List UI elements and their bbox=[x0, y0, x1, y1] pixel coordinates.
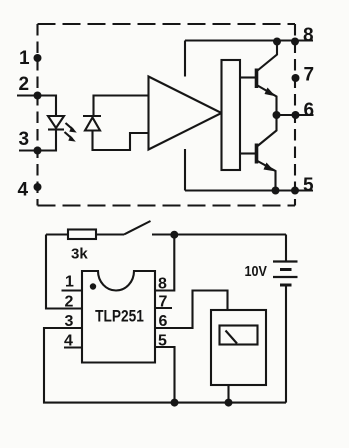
svg-text:2: 2 bbox=[19, 74, 30, 95]
pin 5 border dot bbox=[291, 187, 299, 195]
pin 7 dot bbox=[292, 74, 300, 82]
pin 2 dot bbox=[34, 92, 42, 100]
IC pin 4 stub bbox=[64, 346, 82, 348]
dashed package outline right edge bbox=[294, 24, 296, 206]
battery B1 10V bbox=[273, 262, 298, 286]
wire LED cathode to pin3 bbox=[38, 130, 56, 151]
IC pin 5 wire to ground rail bbox=[155, 347, 175, 403]
Q1 collector junction dot bbox=[273, 38, 281, 46]
meter window bbox=[220, 326, 258, 345]
transistor Q2 base wire bbox=[240, 152, 256, 154]
svg-text:3: 3 bbox=[65, 313, 74, 330]
IC TLP251 body bbox=[82, 271, 155, 363]
dashed package outline top edge bbox=[38, 23, 296, 25]
svg-text:4: 4 bbox=[64, 333, 73, 350]
svg-text:3k: 3k bbox=[71, 246, 88, 263]
inner box left edge bbox=[184, 41, 186, 191]
ground rail junction dot meter bbox=[225, 399, 233, 407]
left rail to pin 2 bbox=[46, 235, 82, 309]
IC pin 8 wire to supply bbox=[155, 235, 174, 291]
dashed package outline bottom edge bbox=[38, 204, 296, 206]
transistor Q1 collector bbox=[258, 42, 278, 71]
ground rail junction dot pin5 bbox=[171, 399, 179, 407]
battery bottom wire bbox=[285, 285, 287, 403]
svg-text:6: 6 bbox=[159, 313, 168, 330]
supply junction dot bbox=[170, 231, 178, 239]
light emission arrow 1 bbox=[66, 123, 77, 133]
svg-text:8: 8 bbox=[158, 276, 167, 293]
wire photodiode anode to amp input bbox=[93, 131, 149, 151]
pin 3 stub wire bbox=[19, 149, 38, 151]
wire pin2 to LED anode bbox=[38, 96, 56, 117]
top supply wire bbox=[46, 233, 68, 235]
IC pin 7 stub bbox=[155, 307, 172, 309]
transistor Q1 emitter bbox=[258, 86, 277, 116]
transistor Q1 base bar bbox=[255, 69, 259, 89]
LED D (emitter diode) bbox=[48, 116, 64, 128]
IC pin1 index dot bbox=[90, 283, 96, 289]
output driver block bbox=[222, 60, 241, 170]
svg-text:7: 7 bbox=[304, 65, 315, 86]
meter bottom wire bbox=[227, 385, 229, 403]
pin 3 dot bbox=[34, 147, 42, 155]
transistor Q2 collector bbox=[258, 115, 277, 146]
pin 2 stub wire bbox=[17, 94, 38, 96]
IC pin 1 stub bbox=[62, 289, 83, 291]
resistor 3k body bbox=[68, 230, 96, 240]
transistor Q2 base bar bbox=[255, 144, 259, 164]
svg-text:1: 1 bbox=[65, 274, 74, 291]
transistor Q2 emitter bbox=[258, 161, 276, 191]
wire resistor to switch bbox=[96, 233, 124, 235]
pin 6 border dot bbox=[292, 111, 300, 119]
switch S blade bbox=[124, 221, 151, 235]
meter body bbox=[211, 310, 266, 385]
light emission arrow 2 bbox=[65, 132, 76, 142]
svg-text:5: 5 bbox=[158, 333, 167, 350]
svg-text:6: 6 bbox=[304, 100, 315, 121]
pin 8 border dot bbox=[291, 38, 299, 46]
Q2 emitter junction dot bbox=[272, 187, 280, 195]
switch fixed contact wire bbox=[152, 233, 286, 235]
wire photodiode cathode to amp input bbox=[94, 96, 149, 117]
meter needle bbox=[226, 331, 238, 344]
svg-text:7: 7 bbox=[159, 294, 168, 311]
pin 4 dot bbox=[34, 183, 42, 191]
svg-text:10V: 10V bbox=[245, 262, 268, 279]
dashed package outline left edge bbox=[36, 24, 38, 206]
svg-text:TLP251: TLP251 bbox=[95, 307, 144, 325]
svg-text:1: 1 bbox=[19, 48, 30, 69]
pin 6 stub wire bbox=[277, 114, 314, 116]
inner box top edge / pin 8 rail bbox=[185, 39, 313, 41]
svg-text:3: 3 bbox=[19, 129, 30, 150]
amplifier triangle bbox=[149, 77, 222, 150]
battery top wire bbox=[285, 235, 287, 262]
svg-text:5: 5 bbox=[303, 175, 314, 196]
IC pin 3 wire to ground rail bbox=[44, 328, 286, 403]
svg-text:4: 4 bbox=[18, 180, 29, 201]
svg-text:2: 2 bbox=[65, 294, 74, 311]
pin 1 dot bbox=[34, 54, 42, 62]
transistor Q1 base wire bbox=[240, 76, 256, 78]
inner box bottom edge / pin 5 rail bbox=[185, 189, 313, 191]
svg-text:8: 8 bbox=[303, 25, 314, 46]
IC pin 6 wire to meter bbox=[155, 291, 228, 329]
output node junction dot bbox=[273, 111, 281, 119]
photodiode bbox=[83, 116, 101, 131]
